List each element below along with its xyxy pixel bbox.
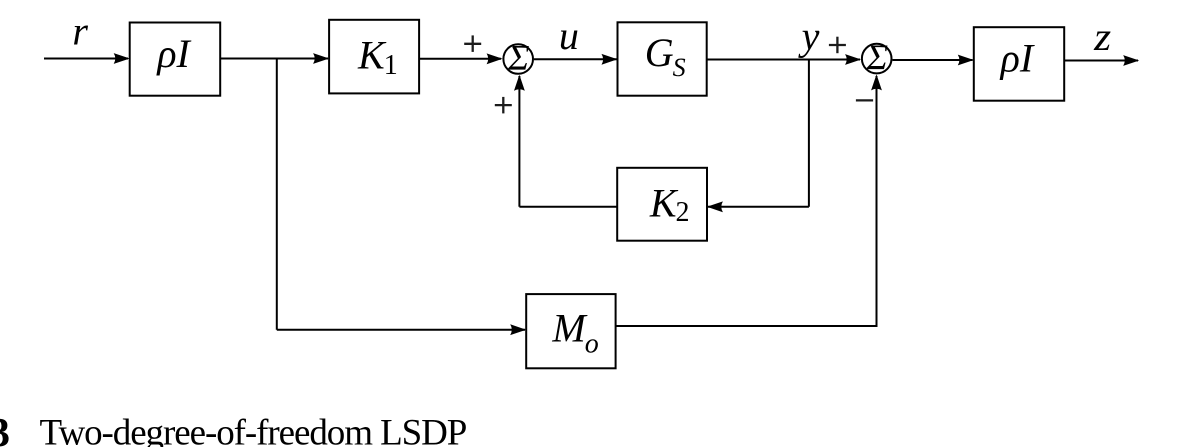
svg-text:Mo: Mo bbox=[551, 305, 598, 359]
arrowhead into K1 bbox=[313, 53, 329, 64]
arrowhead into rhoI1 bbox=[114, 53, 130, 64]
wire riser into sum1 bottom bbox=[518, 76, 520, 207]
minus sign below sum2 bbox=[856, 99, 873, 101]
block rhoI (left) bbox=[130, 23, 221, 96]
plus sign below sum1 bbox=[495, 104, 512, 106]
svg-text:K2: K2 bbox=[649, 180, 690, 228]
arrowhead into Mo bbox=[510, 324, 526, 335]
svg-text:Σ: Σ bbox=[866, 37, 888, 77]
svg-text:ρI: ρI bbox=[999, 35, 1035, 80]
svg-text:y: y bbox=[798, 14, 820, 59]
wire branch horizontal to Mo bbox=[277, 329, 525, 331]
wire branch vertical from node down bbox=[276, 59, 278, 330]
plus sign before sum1 bbox=[464, 43, 481, 45]
svg-text:z: z bbox=[1093, 14, 1112, 59]
arrowhead into Gs bbox=[602, 54, 618, 65]
svg-text:GS: GS bbox=[645, 30, 686, 82]
svg-text:Σ: Σ bbox=[507, 37, 529, 77]
wire Gs to sum2 bbox=[707, 59, 860, 61]
svg-text:r: r bbox=[72, 9, 88, 54]
arrowhead output z end bbox=[1123, 55, 1139, 66]
svg-text:3: 3 bbox=[0, 409, 10, 447]
arrowhead up into sum1 bottom bbox=[514, 75, 525, 91]
arrowhead into rhoI2 bbox=[958, 55, 974, 66]
wire K2 out left bbox=[519, 206, 617, 208]
block K2 bbox=[617, 168, 707, 241]
svg-text:K1: K1 bbox=[357, 32, 398, 81]
wire sum1 to Gs bbox=[534, 58, 617, 60]
wire sum2 to rhoI2 bbox=[892, 59, 972, 61]
wire input r bbox=[44, 58, 128, 60]
wire output z bbox=[1064, 60, 1138, 62]
wire K1 to sum1 bbox=[419, 58, 501, 60]
wire y-branch vertical down bbox=[808, 60, 810, 207]
svg-text:u: u bbox=[559, 13, 579, 58]
wire feedback to K2 bbox=[708, 206, 809, 208]
block Mo bbox=[526, 294, 615, 368]
arrowhead up into sum2 bottom bbox=[871, 74, 882, 90]
summing junction sum2 bbox=[862, 44, 892, 74]
wire rhoI1 to K1 bbox=[220, 58, 328, 60]
summing junction sum1 bbox=[503, 44, 533, 74]
arrowhead into sum2 left bbox=[845, 54, 861, 65]
svg-text:Two-degree-of-freedom LSDP: Two-degree-of-freedom LSDP bbox=[40, 413, 467, 447]
arrowhead into K2 right (pointing left) bbox=[707, 201, 723, 212]
block Gs bbox=[618, 22, 707, 95]
block K1 bbox=[329, 20, 419, 94]
plus sign before sum2 bbox=[829, 44, 846, 46]
block rhoI (right) bbox=[974, 27, 1064, 101]
wire Mo out to sum2 riser bbox=[616, 76, 877, 326]
svg-text:ρI: ρI bbox=[155, 31, 191, 76]
arrowhead into sum1 left bbox=[487, 53, 503, 64]
